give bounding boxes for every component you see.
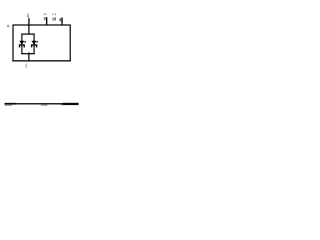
- terminal stub C: [61, 18, 62, 25]
- label v1 (left of stub B): [44, 14, 47, 21]
- footer rule: [5, 103, 79, 104]
- wire left branch upper lead: [21, 34, 22, 45]
- node stem top (center): [28, 25, 29, 34]
- top rail: [21, 34, 34, 35]
- wire bottom overlay: [12, 60, 70, 61]
- label v (below bottom wire): [25, 64, 26, 68]
- diode D2 (right device): [31, 41, 38, 48]
- label i (above stub A): [27, 13, 28, 17]
- footer text right: [60, 103, 62, 106]
- footer text left: [5, 103, 17, 105]
- wire right branch lower lead: [34, 46, 35, 54]
- footer text middle: [41, 105, 47, 106]
- outer loop wire (rectangle): [13, 25, 70, 61]
- label i2 (left of stub C): [52, 14, 56, 21]
- terminal stub B: [46, 17, 47, 25]
- diode D1 (left device): [19, 41, 26, 48]
- wire right branch upper lead: [34, 34, 35, 45]
- label a (left of schematic): [7, 25, 10, 27]
- wire left branch lower lead: [21, 46, 22, 54]
- terminal stub A: [28, 18, 29, 25]
- node stem bottom (center): [28, 52, 29, 61]
- label v2 (left of stub C bar): [59, 18, 61, 21]
- bottom rail: [21, 53, 34, 54]
